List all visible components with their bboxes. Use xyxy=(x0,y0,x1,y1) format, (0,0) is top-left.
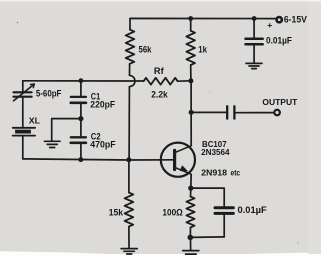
wire hop over base-top wire xyxy=(129,75,135,86)
svg-text:6-15V: 6-15V xyxy=(284,13,308,24)
ground emitter xyxy=(190,237,192,250)
svg-text:OUTPUT: OUTPUT xyxy=(262,97,298,107)
svg-text:+: + xyxy=(267,20,272,30)
junction dot 1k top xyxy=(188,16,193,21)
capacitor 0.01uF bypass xyxy=(215,206,233,209)
junction dot Rf right xyxy=(188,78,193,83)
terminal V+ xyxy=(277,17,282,22)
svg-text:2.2k: 2.2k xyxy=(151,89,168,100)
wire bypass cap top xyxy=(191,188,224,206)
junction dot emitter ground xyxy=(188,235,194,241)
wire 56k-15k divider vertical xyxy=(128,87,130,160)
wire to ground xyxy=(52,119,81,141)
ground supply cap xyxy=(246,62,262,64)
junction dot C1-C2 xyxy=(78,116,83,121)
wire output tap xyxy=(191,111,226,113)
junction dot C2 bottom xyxy=(78,157,83,162)
svg-text:2N3564: 2N3564 xyxy=(201,147,230,157)
resistor 1k xyxy=(190,19,192,31)
capacitor C1 220pF xyxy=(80,81,82,96)
resistor 56k xyxy=(126,30,135,64)
svg-text:Rf: Rf xyxy=(154,65,165,76)
svg-text:0.01µF: 0.01µF xyxy=(266,36,292,46)
capacitor output coupling xyxy=(226,106,228,118)
wire to output terminal xyxy=(236,112,275,114)
capacitor 0.01uF supply xyxy=(253,19,255,38)
wire base node bottom xyxy=(23,159,174,160)
terminal OUTPUT xyxy=(274,110,280,116)
resistor 15k xyxy=(128,160,130,193)
junction dot C1 top xyxy=(79,78,84,83)
junction dot 15k top xyxy=(126,157,131,162)
svg-text:etc: etc xyxy=(231,168,241,177)
svg-text:15k: 15k xyxy=(109,207,124,218)
wire bypass cap bottom xyxy=(190,236,224,239)
ground 15k xyxy=(121,248,137,250)
trimmer capacitor 5-60pF xyxy=(22,81,24,92)
wire base node top xyxy=(23,80,144,82)
transistor Q1 BC107 xyxy=(161,143,195,177)
resistor 100ohm xyxy=(190,188,192,197)
capacitor C2 470pF xyxy=(80,119,82,137)
svg-text:470pF: 470pF xyxy=(90,139,116,149)
svg-text:XL: XL xyxy=(29,115,40,125)
junction dot supply cap xyxy=(252,16,257,21)
svg-text:220pF: 220pF xyxy=(90,100,115,110)
junction dot emitter xyxy=(188,186,193,191)
junction dot output tap xyxy=(189,110,194,115)
svg-text:56k: 56k xyxy=(139,44,153,55)
svg-text:100Ω: 100Ω xyxy=(162,207,182,217)
wire collector xyxy=(190,81,192,146)
svg-text:2N918: 2N918 xyxy=(201,167,227,177)
ground C1-C2 xyxy=(45,140,61,142)
resistor Rf 2.2k xyxy=(144,78,178,85)
svg-text:5-60pF: 5-60pF xyxy=(36,89,62,99)
wire emitter xyxy=(190,174,192,188)
wire V+ rail xyxy=(130,18,276,29)
paper specks xyxy=(17,22,19,24)
svg-text:0.01µF: 0.01µF xyxy=(238,205,268,215)
crystal XL xyxy=(13,127,35,129)
svg-text:1k: 1k xyxy=(198,44,207,55)
